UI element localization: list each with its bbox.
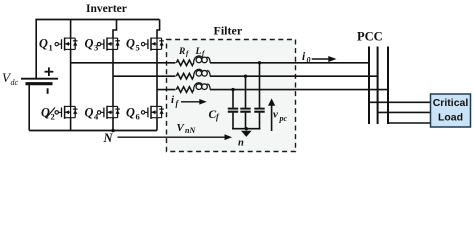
filter dashed box <box>167 40 296 152</box>
battery wire positive <box>35 20 37 79</box>
capacitor common bus wire <box>232 128 261 130</box>
phase B line segment inductor to PCC <box>210 75 378 77</box>
transistor Q3 <box>97 38 120 51</box>
phase C line segment inverter to resistor <box>157 89 176 91</box>
label VnN <box>177 122 197 135</box>
node N junction dot <box>111 129 115 133</box>
svg-text:pc: pc <box>279 114 288 123</box>
inverter leg 2 wires <box>113 20 117 131</box>
junction dot phase A cap3 <box>258 61 261 64</box>
phase B line segment inverter to resistor <box>113 75 176 77</box>
svg-text:5: 5 <box>136 43 140 53</box>
svg-text:Q: Q <box>85 37 94 51</box>
VnN arrow <box>118 134 233 140</box>
phase A line segment inductor to PCC <box>210 62 369 64</box>
svg-text:n: n <box>238 138 244 149</box>
svg-text:Filter: Filter <box>214 24 243 38</box>
svg-text:Q: Q <box>39 37 48 51</box>
svg-text:PCC: PCC <box>357 30 383 44</box>
svg-text:Q: Q <box>126 106 135 120</box>
label Q5 <box>126 37 140 53</box>
label Lf <box>195 47 206 58</box>
PCC busbar 2 <box>377 47 379 125</box>
svg-text:Critical: Critical <box>433 97 469 109</box>
battery plus sign <box>45 67 54 76</box>
resistor Rf phase C <box>176 87 193 93</box>
svg-text:nN: nN <box>185 126 196 135</box>
svg-text:Inverter: Inverter <box>86 3 127 15</box>
svg-text:Load: Load <box>438 111 463 123</box>
svg-text:3: 3 <box>94 43 98 53</box>
label if <box>171 94 180 108</box>
inverter bottom rail (negative DC bus N) <box>29 130 157 132</box>
svg-text:N: N <box>103 131 114 145</box>
critical load box <box>431 94 471 127</box>
svg-text:R: R <box>178 47 185 57</box>
svg-text:Q: Q <box>85 106 94 120</box>
transistor Q5 <box>141 38 164 51</box>
label i0 <box>302 51 311 65</box>
svg-text:L: L <box>195 47 202 57</box>
svg-text:v: v <box>273 109 278 121</box>
resistor Rf phase B <box>176 73 193 79</box>
label Q6 <box>126 106 140 122</box>
svg-text:1: 1 <box>49 43 53 53</box>
i0 arrow <box>312 56 337 62</box>
if arrow <box>181 99 207 105</box>
capacitor Cf branch 1 (taps phase C) <box>228 90 238 129</box>
transistor Q4 <box>97 106 120 119</box>
label Q1 <box>39 37 53 53</box>
label Rf <box>178 47 189 58</box>
load feeder wire 3 <box>388 122 431 124</box>
capacitor Cf branch 2 (taps phase B) <box>240 76 250 129</box>
svg-text:6: 6 <box>136 112 140 122</box>
node n arrow (neutral marker) <box>241 131 252 137</box>
label Q2 with slash <box>41 106 55 122</box>
battery Vdc plates <box>21 79 58 94</box>
label Q3 <box>85 37 99 53</box>
svg-text:Q: Q <box>41 106 50 120</box>
battery wire negative <box>28 84 30 131</box>
svg-text:0: 0 <box>307 56 311 65</box>
phase A line segment inverter to resistor <box>71 62 176 64</box>
inverter leg 3 wires <box>157 20 160 131</box>
label vpc <box>273 109 288 124</box>
junction dot phase C cap1 <box>231 88 234 91</box>
svg-text:dc: dc <box>11 78 19 87</box>
load feeder wire 1 <box>369 101 431 103</box>
svg-text:Q: Q <box>126 37 135 51</box>
svg-text:2: 2 <box>51 112 55 122</box>
junction dot bus n <box>245 127 248 130</box>
inductor Lf phase B <box>194 69 211 76</box>
phase C line segment inductor to PCC <box>210 89 388 91</box>
inverter leg 1 wires <box>70 20 72 131</box>
inductor Lf phase C <box>194 83 211 90</box>
inverter top rail (positive DC bus) <box>35 19 159 21</box>
transistor Q2 <box>55 106 78 119</box>
capacitor Cf branch 3 (taps phase A) <box>254 63 264 129</box>
resistor Rf phase A <box>176 60 193 66</box>
transistor Q1 <box>55 38 78 51</box>
load feeder wire 2 <box>378 111 431 113</box>
PCC busbar 3 <box>387 47 389 125</box>
junction dot phase B cap2 <box>244 75 247 78</box>
transistor Q6 <box>141 106 164 119</box>
vpc arrow <box>268 98 275 131</box>
label Cf <box>209 109 221 122</box>
PCC busbar 1 <box>368 47 370 125</box>
label Q4 <box>85 106 100 122</box>
inductor Lf phase A <box>194 56 211 63</box>
